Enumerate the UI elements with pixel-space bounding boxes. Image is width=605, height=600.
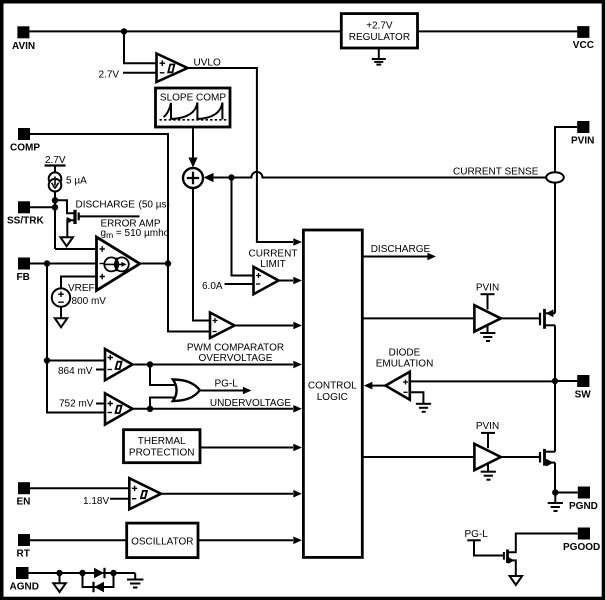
- wire OV node to OR gate: [150, 365, 175, 386]
- svg-text:PVIN: PVIN: [476, 421, 499, 432]
- wire OV output to control logic: [133, 364, 294, 366]
- svg-text:VREF: VREF: [68, 283, 95, 294]
- gate OR PG-L: [173, 380, 200, 402]
- wire AGND net: [29, 572, 136, 574]
- svg-text:REGULATOR: REGULATOR: [349, 32, 410, 43]
- svg-text:CONTROL: CONTROL: [308, 381, 357, 392]
- svg-text:DIODE: DIODE: [389, 348, 421, 359]
- node junction FB at OV: [44, 357, 50, 363]
- svg-text:EN: EN: [17, 497, 31, 508]
- wire diode emulation output to control logic: [372, 385, 386, 387]
- wire UV output to control logic: [133, 408, 294, 410]
- arrow current limit into control logic: [293, 277, 302, 285]
- svg-text:PROTECTION: PROTECTION: [129, 448, 195, 459]
- arrow into summing node right: [204, 173, 214, 182]
- comparator PWM: [187, 313, 284, 354]
- wire oscillator to control logic: [198, 539, 293, 541]
- wire SW node to diode emulation: [410, 380, 555, 382]
- svg-text:CURRENT: CURRENT: [249, 248, 298, 259]
- wire high FET source to SW node: [554, 325, 556, 381]
- arrow UVLO into control logic: [293, 238, 302, 246]
- node junction SW: [552, 378, 558, 384]
- regulator U-REG box: [341, 14, 417, 48]
- wire EN output to control logic: [161, 493, 293, 495]
- node junction discharge: [52, 197, 58, 203]
- ground open triangle AGND: [53, 573, 66, 592]
- wire SW node to low FET drain: [554, 381, 556, 452]
- wire FB branch to OV comparator plus: [47, 360, 105, 362]
- comparator EN 1.18V: [83, 478, 161, 509]
- wire PVIN to rail: [555, 127, 577, 172]
- transistor Q3 PGOOD: [504, 534, 578, 576]
- block SLOPE COMP: [156, 88, 231, 127]
- wire SS/TRK to node: [30, 206, 55, 208]
- svg-text:6.0A: 6.0A: [202, 281, 223, 292]
- pin AVIN: [12, 26, 35, 52]
- svg-text:UVLO: UVLO: [194, 58, 221, 69]
- arrow oscillator into control logic: [293, 537, 302, 545]
- pin PGND: [569, 487, 598, 512]
- comparator UVLO: [157, 54, 221, 83]
- comparator DIODE EMULATION: [376, 348, 434, 400]
- svg-text:COMP: COMP: [10, 142, 40, 153]
- wire PWM output to control logic: [235, 325, 294, 327]
- wire EN to comparator plus: [30, 487, 129, 489]
- ground open triangle PGOOD: [510, 576, 522, 585]
- svg-text:OSCILLATOR: OSCILLATOR: [131, 536, 193, 547]
- summing node: [183, 168, 203, 188]
- comparator CURRENT LIMIT 6.0A: [202, 248, 297, 294]
- wire rail sense to high FET drain: [554, 183, 556, 314]
- arrow thermal into control logic: [293, 444, 302, 452]
- block THERMAL PROTECTION: [124, 430, 201, 463]
- node junction AVIN/UVLO: [121, 28, 127, 34]
- wire SW node to pin: [555, 380, 577, 382]
- wire SS node to error amp plus: [55, 248, 97, 250]
- svg-text:AVIN: AVIN: [12, 41, 35, 52]
- transistor Q1 high-side: [540, 309, 555, 329]
- ground earth below high driver: [480, 325, 495, 341]
- svg-text:800 mV: 800 mV: [72, 296, 107, 307]
- svg-text:PG-L: PG-L: [215, 379, 239, 390]
- svg-text:864 mV: 864 mV: [58, 366, 93, 377]
- wire control to low driver: [362, 456, 474, 458]
- pin SS/TRK: [7, 201, 44, 226]
- wire RT to oscillator: [30, 539, 127, 541]
- wire FB to error amp minus: [30, 263, 97, 265]
- svg-text:LIMIT: LIMIT: [260, 259, 286, 270]
- wire OR output PG-L: [200, 390, 244, 392]
- svg-text:2.7V: 2.7V: [45, 155, 66, 166]
- arrow PG-L: [243, 387, 252, 395]
- svg-text:SLOPE COMP: SLOPE COMP: [160, 93, 226, 104]
- svg-text:PWM COMPARATOR: PWM COMPARATOR: [187, 343, 284, 354]
- ground below regulator: [372, 48, 386, 65]
- wire output node down to PWM minus: [168, 264, 210, 332]
- diode D2 lower: [94, 582, 105, 592]
- svg-text:THERMAL: THERMAL: [138, 436, 186, 447]
- svg-text:OVERVOLTAGE: OVERVOLTAGE: [199, 353, 273, 364]
- wire FB branch down: [47, 264, 105, 413]
- svg-text:PGND: PGND: [569, 501, 598, 512]
- svg-text:SW: SW: [575, 389, 592, 400]
- ground earth PGND: [548, 493, 563, 512]
- wire control to high driver: [362, 317, 474, 319]
- svg-text:FB: FB: [17, 272, 30, 283]
- wire 6.0A to minus input: [225, 283, 254, 285]
- pin FB: [17, 258, 31, 283]
- ground earth diode emulation: [416, 404, 431, 412]
- current source I1 5uA: [49, 172, 87, 191]
- wire 2.7V to UVLO minus input: [123, 72, 157, 74]
- wire slope comp to summing node: [192, 127, 194, 159]
- svg-text:DISCHARGE: DISCHARGE: [76, 200, 136, 211]
- svg-text:RT: RT: [17, 548, 30, 559]
- ground earth below low driver: [481, 464, 496, 480]
- buffer low-side driver: [474, 444, 500, 470]
- node junction AGND triangle: [56, 570, 62, 576]
- wire UVLO output to control logic: [188, 68, 294, 242]
- wire branch to current limit comparator: [232, 178, 254, 276]
- svg-text:PGOOD: PGOOD: [563, 542, 600, 553]
- arrow EN into control logic: [293, 490, 302, 498]
- svg-text:EMULATION: EMULATION: [376, 358, 434, 369]
- node junction UV to OR gate: [147, 406, 153, 412]
- arrow PWM into control logic: [293, 322, 302, 330]
- comparator UNDERVOLTAGE 752mV: [59, 393, 133, 424]
- comparator OVERVOLTAGE 864mV: [58, 349, 133, 380]
- svg-text:VCC: VCC: [573, 40, 594, 51]
- wire current limit output to control logic: [279, 280, 294, 282]
- rail 2.7V bar above current source: [45, 155, 66, 173]
- svg-text:PVIN: PVIN: [571, 135, 594, 146]
- op-amp ERROR AMP: [97, 219, 170, 291]
- rail PVIN bar high driver: [481, 294, 495, 309]
- svg-text:UNDERVOLTAGE: UNDERVOLTAGE: [210, 398, 291, 409]
- ground earth AGND: [127, 573, 143, 588]
- wire current source to node: [54, 192, 56, 250]
- block CONTROL LOGIC U2: [303, 230, 362, 557]
- block OSCILLATOR: [127, 523, 198, 558]
- wire DISCHARGE output: [362, 256, 428, 258]
- svg-text:2.7V: 2.7V: [99, 70, 120, 81]
- node junction diode pair right: [110, 570, 116, 576]
- wire thermal to control logic: [200, 447, 293, 449]
- node junction diode pair left: [79, 570, 85, 576]
- svg-text:5 µA: 5 µA: [66, 176, 87, 187]
- wire junction to UVLO plus input: [124, 31, 157, 63]
- svg-text:AGND: AGND: [10, 581, 39, 592]
- diode D1 upper: [94, 568, 105, 578]
- ground open triangle below discharge: [60, 237, 73, 246]
- svg-text:gm = 510 µmho: gm = 510 µmho: [101, 228, 170, 240]
- svg-text:SS/TRK: SS/TRK: [7, 216, 44, 227]
- arrow diode emulation into control logic: [364, 382, 373, 390]
- current sense element: [546, 172, 564, 182]
- svg-text:752 mV: 752 mV: [59, 399, 94, 410]
- svg-text:1.18V: 1.18V: [83, 496, 109, 507]
- pin VCC: [573, 26, 594, 51]
- wire high driver to gate: [501, 317, 539, 319]
- wire low FET source to PGND node: [554, 463, 556, 493]
- node junction OV to OR gate: [147, 361, 153, 367]
- arrow DISCHARGE: [427, 253, 436, 261]
- rail PVIN bar low driver: [481, 433, 495, 448]
- wire diode emulation minus to ground: [410, 392, 424, 403]
- voltage source VREF 800mV: [52, 277, 106, 328]
- svg-text:+2.7V: +2.7V: [366, 21, 393, 32]
- wire lower diode branch: [83, 573, 114, 587]
- node error amp output: [165, 260, 171, 266]
- wire CURRENT SENSE with hop: [212, 172, 549, 178]
- svg-text:DISCHARGE: DISCHARGE: [371, 244, 431, 255]
- wire summing node to PWM plus: [193, 188, 210, 321]
- node junction PGND: [552, 489, 558, 495]
- arrow into summing node top: [188, 158, 197, 168]
- wire 752mV to plus input: [96, 403, 105, 405]
- buffer high-side driver: [474, 305, 500, 331]
- node junction FB branch: [44, 260, 50, 266]
- wire regulator to VCC: [418, 30, 578, 32]
- pin COMP: [10, 128, 40, 153]
- wire COMP to error amp output node: [30, 134, 168, 264]
- wire low driver to gate: [501, 456, 539, 458]
- svg-text:CURRENT SENSE: CURRENT SENSE: [453, 167, 539, 178]
- wire UV node to OR gate: [150, 398, 175, 409]
- pin SW: [575, 375, 592, 400]
- wire 864mV to minus input: [96, 369, 105, 371]
- svg-text:PG-L: PG-L: [465, 529, 489, 540]
- pin RT: [17, 534, 31, 559]
- pin PGOOD: [563, 528, 600, 553]
- transistor Q-DISCHARGE: [55, 200, 170, 237]
- node junction current sense branch: [228, 174, 234, 180]
- arrow UV into control logic: [293, 405, 302, 413]
- wire 1.18V to minus input: [110, 498, 129, 500]
- wire AVIN to regulator: [29, 30, 341, 32]
- svg-text:(50 µs): (50 µs): [139, 200, 170, 211]
- svg-text:LOGIC: LOGIC: [317, 392, 348, 403]
- wire error amp output: [140, 263, 168, 265]
- pin AGND: [10, 567, 39, 592]
- arrow OV into control logic: [293, 361, 302, 369]
- transistor Q2 low-side: [540, 449, 555, 467]
- wire PGND node to pin: [555, 492, 578, 494]
- pin EN: [17, 482, 31, 507]
- rail PG-L bar: [467, 540, 504, 555]
- pin PVIN: [571, 121, 594, 146]
- node junction SS/TRK: [52, 204, 58, 210]
- svg-text:PVIN: PVIN: [476, 282, 499, 293]
